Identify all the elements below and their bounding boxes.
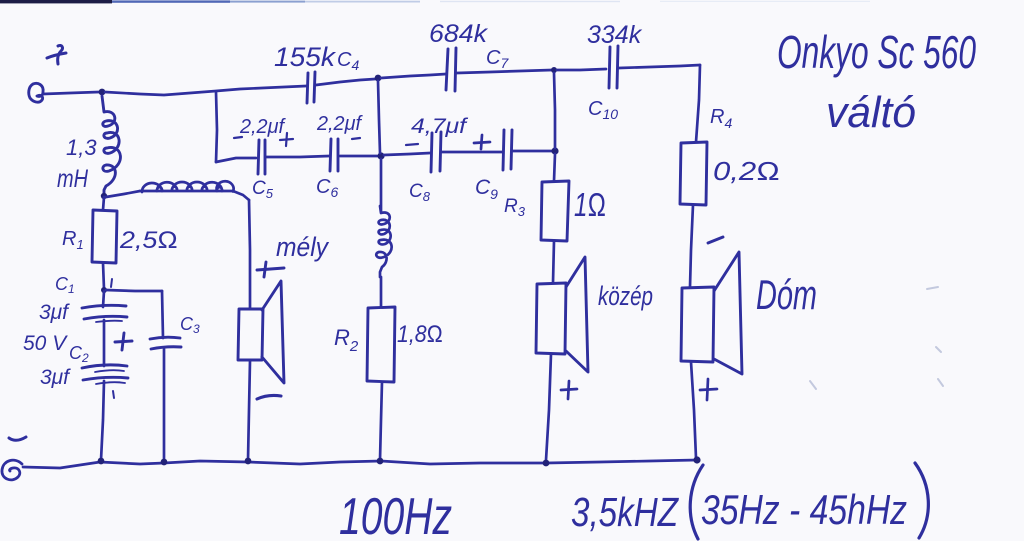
minus before C5 [234, 137, 242, 138]
speaker mely body [238, 309, 263, 360]
wire C6 to node F [340, 155, 377, 158]
svg-text:50 V: 50 V [23, 332, 68, 355]
wire from node C to C10 [557, 69, 606, 70]
wire mely branch vertical down to speaker [249, 200, 250, 308]
wire from node B to C7 [381, 74, 446, 78]
svg-text:Dóm: Dóm [756, 271, 817, 318]
plus sign between C1 and C2 [115, 333, 132, 350]
node D junction L1/R1/L2 [101, 193, 107, 199]
wire node C down to node G [554, 73, 555, 148]
node K bottom R2 branch [377, 458, 384, 465]
speaker mely cone [262, 281, 284, 383]
wire node B down to node F [378, 81, 380, 153]
wire C8 to C9 [442, 151, 502, 154]
capacitor C10 plates [609, 46, 618, 88]
wire from C7 to node C [457, 70, 552, 73]
capacitor C3 plates [150, 337, 181, 349]
node F junction C6/C8/R2 column [377, 152, 384, 159]
output terminal [2, 460, 22, 480]
speaker Dom body [681, 287, 714, 362]
inductor L3 vertical coil [376, 206, 391, 277]
wire R2 to bottom rail [380, 382, 382, 460]
wire node F to C8 [384, 153, 430, 155]
wire kozep to bottom rail [546, 354, 551, 460]
wire C3 down to bottom rail [163, 349, 166, 461]
svg-text:közép: közép [598, 281, 653, 311]
wire right vertical down to R4 [696, 65, 700, 142]
wire node G to R3 [554, 154, 555, 181]
svg-text:mH: mH [57, 165, 89, 193]
plus below Dom [700, 379, 717, 400]
node L bottom kozep branch [543, 460, 550, 467]
svg-text:3μf: 3μf [40, 366, 71, 389]
svg-text:3μf: 3μf [39, 301, 70, 324]
svg-text:Onkyo Sc 560: Onkyo Sc 560 [777, 26, 976, 78]
svg-text:2,5Ω: 2,5Ω [119, 227, 178, 254]
minus below mely [257, 395, 281, 399]
wire R4 to Dom speaker [690, 205, 693, 287]
wire top from input terminal to node A [43, 92, 99, 94]
resistor R1 wire from node D [103, 197, 104, 210]
resistor R3 body [541, 181, 569, 241]
wire C3 branch vertical top [162, 291, 163, 338]
node M bottom Dom branch [693, 456, 700, 463]
speaker Dom cone [714, 252, 742, 374]
plus between C8 and C9 [474, 135, 490, 149]
svg-text:334k: 334k [587, 21, 643, 49]
wire node E down to C1 [103, 291, 104, 307]
svg-text:2,2μf: 2,2μf [239, 116, 286, 138]
node B junction above C5 column [375, 75, 382, 82]
svg-text:684k: 684k [429, 20, 489, 48]
tick below C2 [113, 391, 114, 398]
capacitor C8 plates [431, 132, 441, 172]
capacitor C4 plates [307, 72, 315, 103]
svg-text:35Hz - 45hHz: 35Hz - 45hHz [701, 486, 907, 533]
svg-text:1,8Ω: 1,8Ω [397, 321, 443, 348]
minus above Dom [708, 237, 723, 243]
capacitor C2 plates [82, 365, 128, 384]
wire C5 to C6 [266, 156, 329, 157]
svg-text:0,2Ω: 0,2Ω [713, 156, 780, 186]
plus after C5 value [280, 133, 293, 146]
svg-text:4,7μf: 4,7μf [411, 115, 469, 138]
wire R1 to node E [103, 263, 104, 289]
node C junction above R3 column [551, 67, 557, 73]
speaker kozep body [536, 283, 566, 354]
node I bottom C3 branch [161, 459, 168, 466]
svg-text:1,3: 1,3 [66, 135, 97, 160]
inductor L2 horizontal coil [140, 181, 234, 192]
capacitor C7 plates [446, 48, 456, 91]
wire mely to bottom rail [248, 361, 250, 460]
resistor R4 body [680, 142, 707, 205]
svg-text:mély: mély [276, 232, 329, 262]
minus sign output polarity [9, 437, 26, 440]
faint pencil marks right side [810, 287, 943, 389]
svg-text:100Hz: 100Hz [339, 488, 452, 541]
wire from C10 to top right corner [619, 65, 700, 68]
parenthesis close [915, 463, 928, 538]
node A junction top of inductor L1 [99, 89, 106, 96]
capacitor C1 plates [82, 305, 127, 322]
plus below kozep [561, 381, 577, 399]
speaker kozep cone [566, 257, 588, 372]
inductor L1 1.3mH vertical coil [102, 96, 120, 196]
svg-text:1Ω: 1Ω [574, 186, 606, 223]
svg-text:155k: 155k [274, 42, 337, 72]
wire C2 down to bottom rail [101, 381, 104, 460]
wire C1 to C2 [103, 320, 106, 366]
resistor R1 body [92, 210, 117, 263]
wire R3 to kozep speaker [553, 241, 554, 283]
wire L3 to R2 [380, 277, 383, 307]
bottom rail wire [23, 460, 697, 468]
capacitor C6 plates [330, 139, 338, 171]
input terminal + [29, 83, 43, 102]
node J bottom mely branch [245, 458, 252, 465]
capacitor C9 plates [503, 130, 512, 170]
svg-text:váltó: váltó [826, 88, 916, 137]
wire top main horizontal [105, 86, 306, 95]
wire Dom to bottom rail [691, 362, 696, 458]
capacitor C5 plates [258, 140, 265, 174]
node H bottom C2 branch [98, 458, 105, 465]
node G junction C9/R3 [551, 147, 558, 154]
plus above mely [257, 262, 284, 277]
bracket wire from top rail down to C5 [216, 92, 217, 162]
resistor R2 body [367, 307, 395, 382]
svg-text:3,5kHZ: 3,5kHZ [571, 489, 680, 535]
wire node E to C3 branch [106, 290, 162, 291]
plus sign input polarity [47, 45, 66, 64]
parenthesis open [690, 465, 703, 539]
wire C9 to node G [513, 150, 552, 153]
minus after C6 value [352, 138, 360, 139]
wire node F down to L3 [380, 159, 383, 211]
wire from L2 to mely branch corner [233, 191, 249, 200]
node E junction R1/C1/C3 [101, 287, 107, 293]
svg-text:2,2μf: 2,2μf [316, 113, 363, 135]
wire bracket to C5 [216, 158, 256, 162]
minus before C8 [406, 144, 418, 145]
tick above C1 [111, 279, 112, 287]
wire from C4 to node B [316, 79, 375, 85]
wire from node D to horizontal coil [106, 191, 140, 197]
scanner artifact top bar [0, 0, 870, 3]
